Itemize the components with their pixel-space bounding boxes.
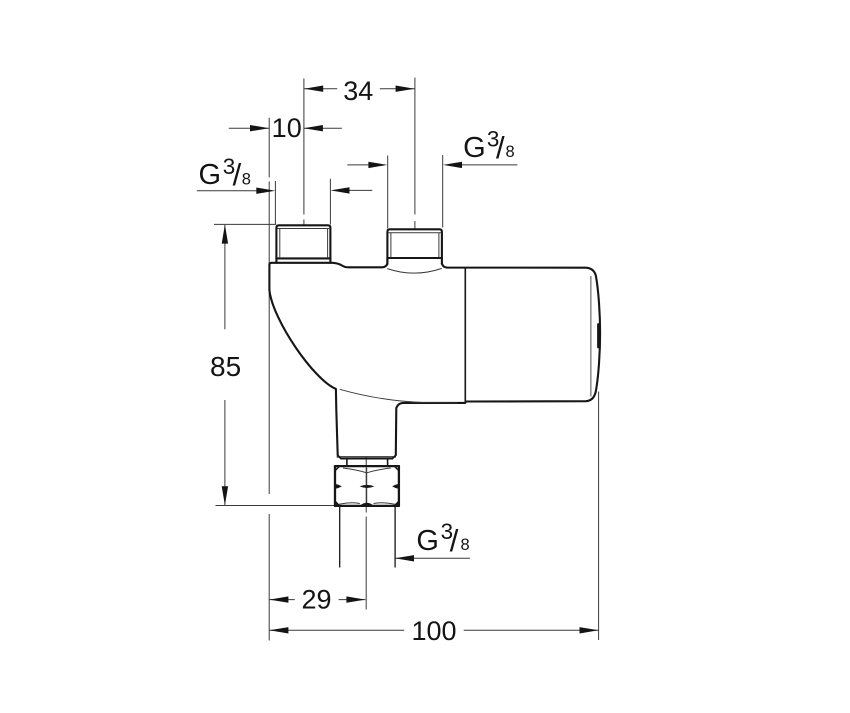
svg-text:G: G [199,159,222,191]
svg-text:8: 8 [506,143,515,161]
svg-text:/: / [496,130,505,165]
svg-text:/: / [450,523,459,558]
svg-text:34: 34 [343,76,373,106]
svg-text:G: G [416,525,439,557]
svg-text:29: 29 [301,585,331,615]
svg-text:G: G [463,132,486,164]
svg-text:85: 85 [210,351,241,382]
svg-text:8: 8 [461,536,470,554]
svg-text:100: 100 [411,616,456,646]
svg-text:/: / [233,157,242,192]
svg-text:10: 10 [272,113,302,143]
svg-text:8: 8 [242,171,251,189]
